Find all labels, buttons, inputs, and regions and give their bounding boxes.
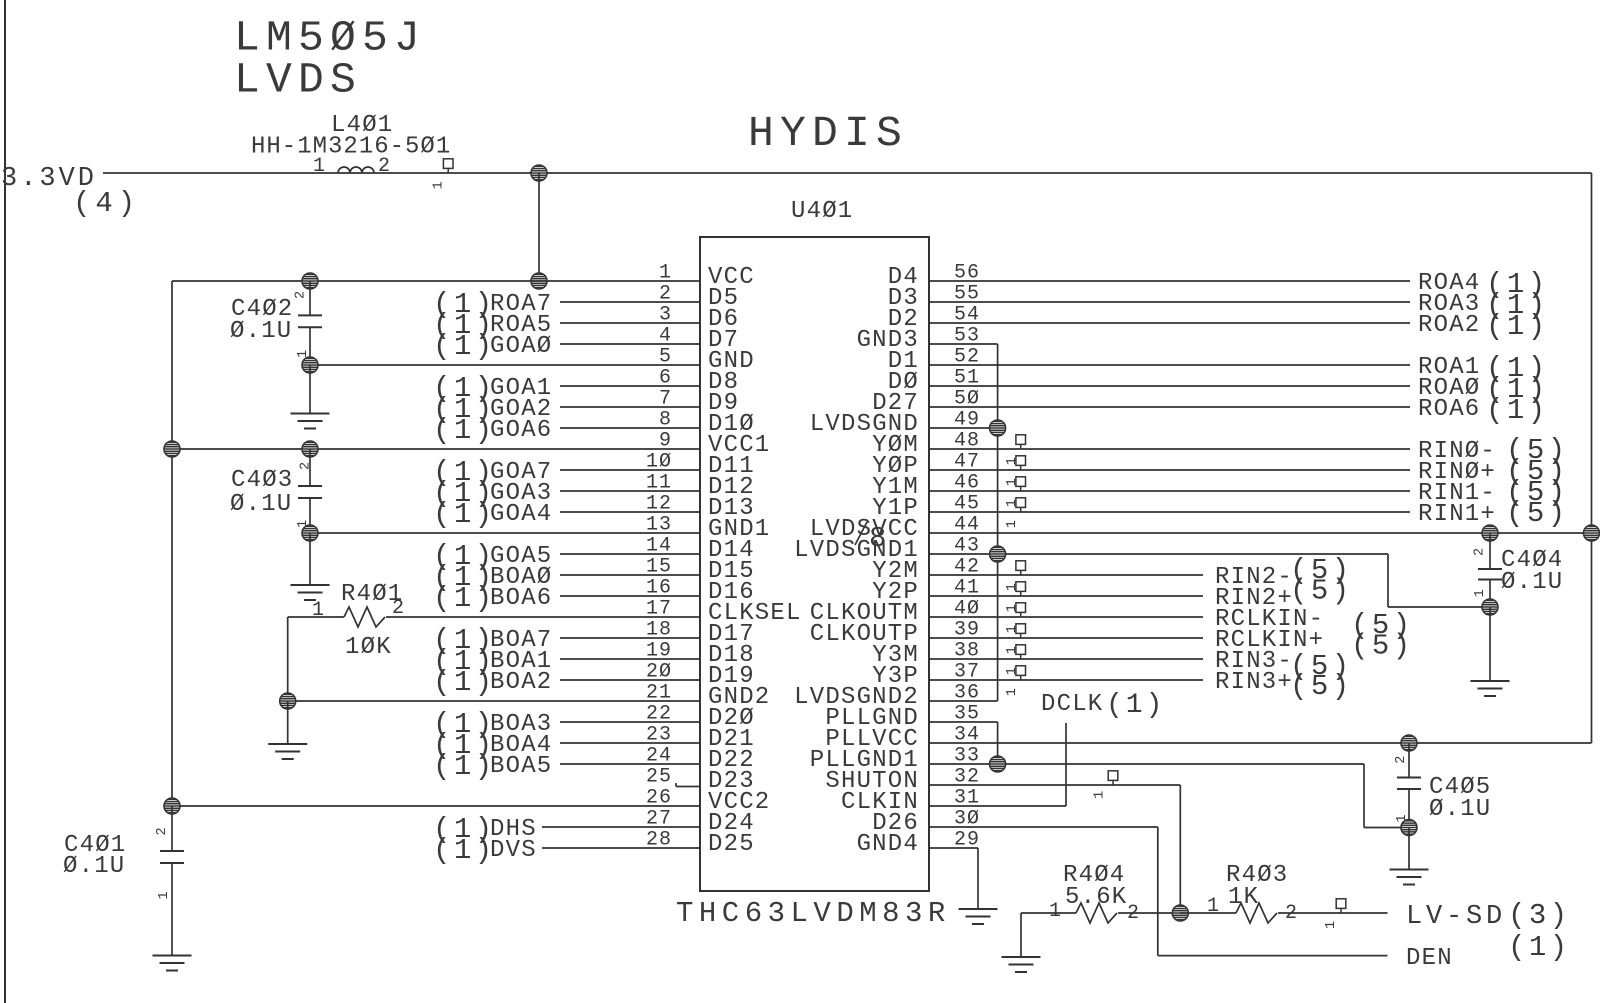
wire right gnd bus vertical xyxy=(997,344,999,701)
junction C404 bottom / LVDSGND1 xyxy=(1482,599,1498,615)
terminal square on SHUTON wire xyxy=(1108,771,1118,785)
svg-text:Ø.1U: Ø.1U xyxy=(230,318,292,345)
wire SHUTON drop to LV-SD node xyxy=(1179,785,1181,913)
junction C405 bottom / PLLGND1 xyxy=(1401,820,1417,836)
svg-text:1: 1 xyxy=(313,155,326,178)
wire D26 to DEN label xyxy=(1158,955,1388,957)
junction LV-SD node R404/R403/SHUTON xyxy=(1172,905,1188,921)
wire U401 pin 34 PLLVCC to right edge xyxy=(929,742,1592,744)
svg-text:1: 1 xyxy=(1005,457,1020,465)
wire U401 pin 54 to ROA2 xyxy=(929,322,1410,324)
junction R401 drop at GND2 row xyxy=(280,693,296,709)
wire GND2 row to ground xyxy=(287,701,289,744)
wire U401 pin 44 LVDSVCC to right edge xyxy=(929,532,1592,534)
wire U401 pin 52 to ROA1 xyxy=(929,364,1410,366)
wire BOA5 to U401 pin 24 xyxy=(560,763,700,765)
svg-text:(1): (1) xyxy=(433,330,496,363)
resistor R401 body xyxy=(344,607,385,627)
wire BOA6 to U401 pin 16 xyxy=(560,595,700,597)
svg-text:(5): (5) xyxy=(1351,630,1414,663)
svg-text:2: 2 xyxy=(155,827,170,835)
svg-text:RIN1+: RIN1+ xyxy=(1418,501,1496,528)
svg-text:ROA6: ROA6 xyxy=(1418,396,1480,423)
capacitor C403 lead bottom xyxy=(309,498,311,533)
resistor R404 body xyxy=(1076,903,1117,923)
svg-text:2: 2 xyxy=(294,291,309,299)
svg-text:LV-SD: LV-SD xyxy=(1406,902,1506,932)
svg-text:(1): (1) xyxy=(1106,690,1165,721)
capacitor C402 plates xyxy=(298,314,322,316)
svg-text:(4): (4) xyxy=(73,187,140,220)
wire R401 left drop to GND2 row xyxy=(287,617,289,701)
wire GOA3 to U401 pin 11 xyxy=(560,490,700,492)
wire U401 pin21 GND2 row xyxy=(288,700,700,702)
wire U401 pin 39 to RCLKIN+ xyxy=(929,637,1203,639)
wire GOA4 to U401 pin 12 xyxy=(560,511,700,513)
svg-text:(1): (1) xyxy=(1486,310,1549,343)
wire U401 pin17 CLKSEL row right of R401 xyxy=(386,616,700,618)
svg-text:(1): (1) xyxy=(433,582,496,615)
wire U401 pin 56 to ROA4 xyxy=(929,280,1410,282)
ground below C404 xyxy=(1471,681,1510,696)
svg-text:25: 25 xyxy=(646,766,672,789)
svg-text:1: 1 xyxy=(1093,791,1108,799)
svg-text:1: 1 xyxy=(157,891,172,899)
capacitor C404 lead bottom xyxy=(1489,580,1491,608)
wire GND4 drop to ground xyxy=(977,848,979,909)
svg-text:2: 2 xyxy=(1394,756,1409,764)
wire BOA0 to U401 pin 15 xyxy=(560,574,700,576)
wire GOA2 to U401 pin 7 xyxy=(560,406,700,408)
junction left bus at VCC1 row xyxy=(164,441,180,457)
wire pin35 drop to pin33 row xyxy=(997,722,999,764)
U401 pin25 nc stub xyxy=(676,786,700,788)
svg-text:RIN3+: RIN3+ xyxy=(1215,669,1293,696)
wire U401 pin 45 to RIN1+ xyxy=(929,511,1410,513)
bus width marker /8 on LVDSVCC xyxy=(855,522,867,545)
wire U401 pin 51 to ROA0 xyxy=(929,385,1410,387)
terminal square on pin 48 wire xyxy=(1016,435,1026,449)
wire U401 pin 42 to RIN2- xyxy=(929,574,1203,576)
svg-text:1: 1 xyxy=(1324,921,1339,929)
wire 3.3VD power rail xyxy=(103,172,1592,174)
capacitor C401 lead top xyxy=(171,806,173,851)
wire BOA1 to U401 pin 19 xyxy=(560,658,700,660)
svg-text:GOA6: GOA6 xyxy=(490,417,552,444)
wire U401 pin13 GND1 row xyxy=(310,532,700,534)
svg-text:(5): (5) xyxy=(1290,575,1353,608)
svg-text:THC63LVDM83R: THC63LVDM83R xyxy=(676,897,951,930)
wire rail drop to U401 pin 1 xyxy=(538,173,540,281)
wire pin43 to C404 bottom xyxy=(1388,606,1490,608)
wire ROA5 to U401 pin 3 xyxy=(560,322,700,324)
wire U401 pin 40 to RCLKIN- xyxy=(929,616,1203,618)
terminal square on pin 47 wire xyxy=(1016,456,1026,470)
wire R404 right lead xyxy=(1118,912,1180,914)
ground below C402 xyxy=(291,414,330,429)
wire BOA2 to U401 pin 20 xyxy=(560,679,700,681)
svg-text:(5): (5) xyxy=(1290,670,1353,703)
ground below pin 29 GND4 xyxy=(959,909,998,924)
svg-text:(5): (5) xyxy=(1506,497,1569,530)
terminal square on 3.3VD rail xyxy=(443,159,453,173)
wire GOA7 to U401 pin 10 xyxy=(560,469,700,471)
wire GOA6 to U401 pin 8 xyxy=(560,427,700,429)
wire R403 right lead to LV-SD xyxy=(1278,912,1388,914)
capacitor C405 lead bottom xyxy=(1408,789,1410,828)
svg-text:GND4: GND4 xyxy=(857,831,919,858)
svg-text:1: 1 xyxy=(1005,625,1020,633)
svg-text:1: 1 xyxy=(1049,900,1062,923)
wire U401 pin9 VCC1 row to left bus xyxy=(172,448,700,450)
ground below C403 xyxy=(291,585,330,600)
svg-text:5.6K: 5.6K xyxy=(1065,884,1127,911)
terminal square on pin 38 wire xyxy=(1016,645,1026,659)
wire U401 pin 36 LVDSGND2 to gnd bus xyxy=(929,700,998,702)
ground below R404 xyxy=(1002,957,1041,972)
svg-text:(1): (1) xyxy=(433,750,496,783)
IC U401 body THC63LVDM83R xyxy=(700,237,929,891)
terminal square on pin 45 wire xyxy=(1016,498,1026,512)
svg-text:2: 2 xyxy=(392,597,405,620)
svg-text:DEN: DEN xyxy=(1406,945,1453,972)
svg-text:1: 1 xyxy=(1005,688,1020,696)
wire R403 left lead xyxy=(1180,912,1236,914)
svg-text:(1): (1) xyxy=(433,414,496,447)
terminal square on pin 39 wire xyxy=(1016,624,1026,638)
svg-text:HYDIS: HYDIS xyxy=(748,109,908,158)
wire GOA0 to U401 pin 4 xyxy=(560,343,700,345)
wire C404 bottom to ground xyxy=(1489,607,1491,681)
junction gnd bus at pin 43 row xyxy=(990,546,1006,562)
svg-text:(1): (1) xyxy=(433,666,496,699)
svg-text:1: 1 xyxy=(1005,646,1020,654)
svg-text:Ø.1U: Ø.1U xyxy=(230,491,292,518)
wire D26 drop xyxy=(1157,827,1159,956)
svg-text:1: 1 xyxy=(1005,499,1020,507)
svg-text:8: 8 xyxy=(869,522,888,555)
junction at pin1 row and VCC drop xyxy=(531,273,547,289)
wire U401 pin 46 to RIN1- xyxy=(929,490,1410,492)
ground below R401 xyxy=(268,744,307,759)
terminal square on pin 46 wire xyxy=(1016,477,1026,491)
junction gnd bus at pin 49 row xyxy=(990,420,1006,436)
capacitor C403 lead top xyxy=(309,449,311,486)
svg-text:1: 1 xyxy=(431,181,446,189)
svg-text:BOA6: BOA6 xyxy=(490,585,552,612)
svg-text:(1): (1) xyxy=(433,498,496,531)
svg-text:1ØK: 1ØK xyxy=(345,634,392,661)
capacitor C401 plates xyxy=(160,850,184,852)
svg-text:1: 1 xyxy=(1005,583,1020,591)
terminal square on pin 37 wire xyxy=(1016,666,1026,680)
wire U401 pin 55 to ROA3 xyxy=(929,301,1410,303)
junction C403 bottom at GND1 row xyxy=(302,525,318,541)
svg-text:1: 1 xyxy=(1473,589,1488,597)
wire BOA3 to U401 pin 22 xyxy=(560,721,700,723)
wire C405 bottom to ground xyxy=(1408,828,1410,870)
svg-text:BOA5: BOA5 xyxy=(490,753,552,780)
capacitor C402 lead bottom xyxy=(309,327,311,365)
svg-text:HH-1M3216-5Ø1: HH-1M3216-5Ø1 xyxy=(251,134,451,161)
junction pin44 row at right edge xyxy=(1584,525,1600,541)
svg-text:1: 1 xyxy=(312,599,325,622)
svg-text:GOAØ: GOAØ xyxy=(490,333,552,360)
wire pin33 to C405 bottom xyxy=(1364,827,1409,829)
junction C402 bottom at GND row xyxy=(302,357,318,373)
wire U401 pin 29 GND4 xyxy=(929,847,978,849)
wire DVS to U401 pin 28 xyxy=(542,847,700,849)
svg-text:(3): (3) xyxy=(1508,899,1571,932)
capacitor C404 lead top xyxy=(1489,533,1491,569)
wire U401 pin 47 to RIN0+ xyxy=(929,469,1410,471)
wire U401 pin 38 to RIN3- xyxy=(929,658,1203,660)
junction C403 top at VCC1 row xyxy=(302,441,318,457)
svg-text:(1): (1) xyxy=(1508,931,1571,964)
wire U401 pin 32 SHUTON xyxy=(929,784,1180,786)
wire left vertical bus VCC1/VCC2 xyxy=(171,281,173,806)
resistor R403 body xyxy=(1236,903,1277,923)
wire U401 pin26 VCC2 row to left bus xyxy=(172,805,700,807)
wire U401 pin 53 GND3 to gnd bus xyxy=(929,343,998,345)
wire U401 pin5 GND row xyxy=(310,364,700,366)
svg-text:1: 1 xyxy=(1005,520,1020,528)
junction pin34 row at C405 top xyxy=(1401,735,1417,751)
svg-text:GOA4: GOA4 xyxy=(490,501,552,528)
svg-text:U4Ø1: U4Ø1 xyxy=(791,198,853,225)
wire DHS to U401 pin 27 xyxy=(542,826,700,828)
wire CLKIN up to DCLK label xyxy=(1065,723,1067,806)
wire U401 pin 49 LVDSGND to gnd bus xyxy=(929,427,998,429)
wire U401 pin1 VCC row to left bus xyxy=(172,280,700,282)
svg-text:C4Ø3: C4Ø3 xyxy=(231,467,293,494)
wire GOA5 to U401 pin 14 xyxy=(560,553,700,555)
svg-text:(1): (1) xyxy=(433,834,496,867)
junction left bus at VCC2 row xyxy=(164,798,180,814)
junction pin1 row / C402 top xyxy=(302,273,318,289)
wire U401 pin 30 D26 xyxy=(929,826,1158,828)
wire R404 left lead xyxy=(1021,912,1076,914)
svg-text:2: 2 xyxy=(299,462,314,470)
capacitor C405 lead top xyxy=(1408,743,1410,778)
svg-text:D25: D25 xyxy=(708,831,755,858)
wire power rail right edge drop to LVDSVCC/PLLVCC xyxy=(1591,173,1593,743)
capacitor C405 plates xyxy=(1397,777,1421,779)
wire ROA7 to U401 pin 2 xyxy=(560,301,700,303)
capacitor C403 plates xyxy=(298,485,322,487)
ground below C405 xyxy=(1390,870,1429,885)
svg-text:Ø.1U: Ø.1U xyxy=(1501,569,1563,596)
junction pin33 row at PLLGND drop xyxy=(990,756,1006,772)
capacitor C401 lead bottom xyxy=(171,863,173,956)
wire U401 pin 35 PLLGND xyxy=(929,721,998,723)
capacitor C404 plates xyxy=(1478,568,1502,570)
resistor R401 left lead xyxy=(288,616,344,618)
terminal square on pin 42 wire xyxy=(1016,561,1026,575)
sheet border left edge xyxy=(4,0,6,1003)
svg-text:2: 2 xyxy=(1472,548,1487,556)
svg-text:(1): (1) xyxy=(1486,394,1549,427)
terminal square on pin 41 wire xyxy=(1016,582,1026,596)
svg-text:1: 1 xyxy=(1005,604,1020,612)
wire U401 pin 48 to RIN0- xyxy=(929,448,1410,450)
svg-text:LVDS: LVDS xyxy=(234,55,362,104)
wire GND1 row to ground xyxy=(309,533,311,585)
svg-text:BOA2: BOA2 xyxy=(490,669,552,696)
wire GOA1 to U401 pin 6 xyxy=(560,385,700,387)
svg-text:1: 1 xyxy=(1207,895,1220,918)
wire U401 pin 41 to RIN2+ xyxy=(929,595,1203,597)
wire U401 pin 37 to RIN3+ xyxy=(929,679,1203,681)
capacitor C402 lead top xyxy=(309,281,311,315)
svg-text:1: 1 xyxy=(1005,667,1020,675)
ground below C401 xyxy=(153,956,192,971)
wire U401 pin 50 to ROA6 xyxy=(929,406,1410,408)
terminal square on pin 40 wire xyxy=(1016,603,1026,617)
wire U401 pin 31 CLKIN xyxy=(929,805,1066,807)
junction on rail at VCC drop xyxy=(531,165,547,181)
wire U401 pin 43 LVDSGND1 xyxy=(929,553,1388,555)
svg-text:ROA2: ROA2 xyxy=(1418,312,1480,339)
svg-text:DCLK: DCLK xyxy=(1041,691,1103,718)
svg-text:Ø.1U: Ø.1U xyxy=(1429,796,1491,823)
wire pin33 drop xyxy=(1363,764,1365,828)
wire pin43 drop xyxy=(1387,554,1389,607)
wire BOA7 to U401 pin 18 xyxy=(560,637,700,639)
wire R404 left drop to ground xyxy=(1020,913,1022,957)
terminal square on LV-SD wire xyxy=(1336,899,1346,913)
wire BOA4 to U401 pin 23 xyxy=(560,742,700,744)
inductor L401 body xyxy=(338,167,374,173)
svg-text:2: 2 xyxy=(378,155,391,178)
svg-text:Ø.1U: Ø.1U xyxy=(63,853,125,880)
wire U401 pin 33 PLLGND1 xyxy=(929,763,1364,765)
wire GND row to ground xyxy=(309,365,311,414)
junction pin44 row at C404 top xyxy=(1482,525,1498,541)
svg-text:1: 1 xyxy=(1005,478,1020,486)
svg-text:DVS: DVS xyxy=(490,837,537,864)
